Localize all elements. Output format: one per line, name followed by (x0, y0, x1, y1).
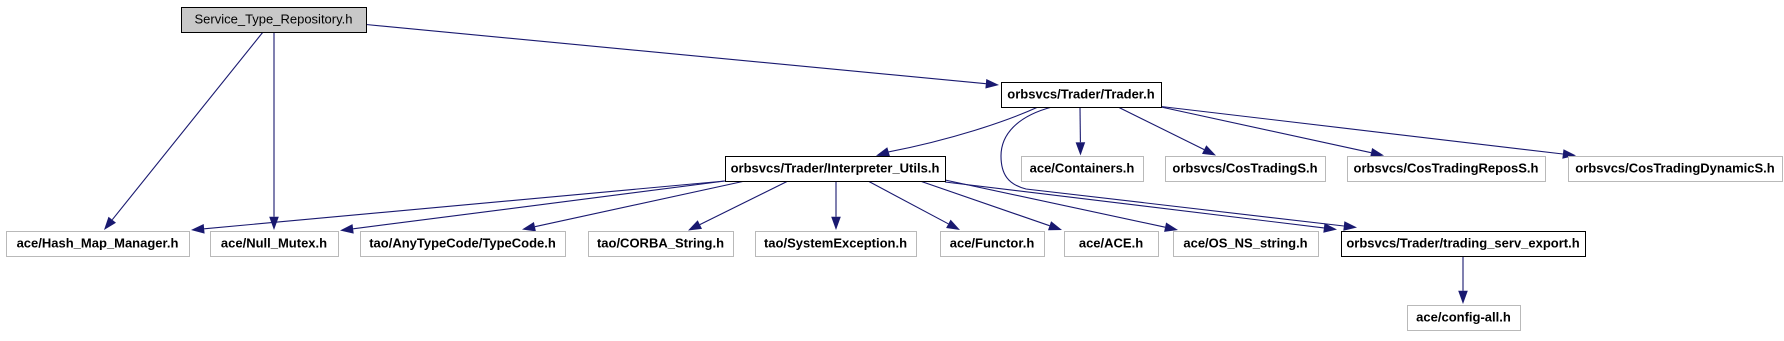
svg-text:orbsvcs/CosTradingReposS.h: orbsvcs/CosTradingReposS.h (1354, 161, 1539, 176)
svg-text:ace/OS_NS_string.h: ace/OS_NS_string.h (1183, 236, 1307, 251)
edge Interpreter_Utils.h -> tao/AnyTypeCode/TypeCode.h (522, 181, 745, 231)
svg-text:ace/config-all.h: ace/config-all.h (1416, 310, 1511, 325)
svg-text:ace/Hash_Map_Manager.h: ace/Hash_Map_Manager.h (17, 236, 179, 251)
node orbsvcs/CosTradingS.h (1166, 157, 1326, 182)
node ace/config-all.h (1408, 306, 1521, 331)
edge Interpreter_Utils.h -> orbsvcs/Trader/trading_serv_export.h (945, 182, 1337, 233)
svg-text:Service_Type_Repository.h: Service_Type_Repository.h (194, 12, 352, 27)
edge Interpreter_Utils.h -> tao/SystemException.h (831, 181, 841, 230)
node Service_Type_Repository.h (root) (182, 8, 367, 33)
node ace/Null_Mutex.h (211, 232, 339, 257)
svg-text:ace/Functor.h: ace/Functor.h (950, 236, 1035, 251)
svg-text:orbsvcs/Trader/Trader.h: orbsvcs/Trader/Trader.h (1007, 87, 1154, 102)
svg-text:ace/ACE.h: ace/ACE.h (1079, 236, 1143, 251)
edge trading_serv_export.h -> ace/config-all.h (1458, 256, 1468, 304)
node orbsvcs/CosTradingDynamicS.h (1569, 157, 1783, 182)
svg-text:tao/AnyTypeCode/TypeCode.h: tao/AnyTypeCode/TypeCode.h (369, 236, 556, 251)
svg-text:orbsvcs/CosTradingS.h: orbsvcs/CosTradingS.h (1172, 161, 1317, 176)
edge Service_Type_Repository.h -> ace/Null_Mutex.h (269, 32, 279, 230)
svg-text:orbsvcs/Trader/Interpreter_Uti: orbsvcs/Trader/Interpreter_Utils.h (731, 161, 940, 176)
node ace/Functor.h (941, 232, 1045, 257)
svg-text:ace/Containers.h: ace/Containers.h (1030, 161, 1135, 176)
node ace/Containers.h (1022, 157, 1144, 182)
edge Interpreter_Utils.h -> ace/OS_NS_string.h (945, 180, 1178, 232)
svg-text:ace/Null_Mutex.h: ace/Null_Mutex.h (221, 236, 327, 251)
edge Interpreter_Utils.h -> ace/Null_Mutex.h (340, 181, 725, 234)
node orbsvcs/Trader/trading_serv_export.h (1342, 232, 1586, 257)
edge Trader.h -> orbsvcs/CosTradingDynamicS.h (1161, 107, 1576, 159)
edge Trader.h -> ace/Containers.h (1076, 107, 1086, 156)
edge Trader.h -> trading_serv_export.h (curve around ace/Containers.h) (1001, 107, 1357, 231)
svg-text:orbsvcs/Trader/trading_serv_ex: orbsvcs/Trader/trading_serv_export.h (1346, 236, 1579, 251)
edge Interpreter_Utils.h -> ace/ACE.h (920, 181, 1062, 230)
node ace/Hash_Map_Manager.h (7, 232, 190, 257)
svg-text:tao/SystemException.h: tao/SystemException.h (764, 236, 907, 251)
svg-text:tao/CORBA_String.h: tao/CORBA_String.h (597, 236, 724, 251)
edge Trader.h -> orbsvcs/CosTradingS.h (1118, 107, 1216, 156)
edge Trader.h -> Interpreter_Utils.h (876, 107, 1038, 157)
node ace/OS_NS_string.h (1174, 232, 1319, 257)
edge Service_Type_Repository.h -> ace/Hash_Map_Manager.h (104, 32, 263, 230)
node orbsvcs/Trader/Trader.h (1002, 83, 1162, 108)
edge Trader.h -> orbsvcs/CosTradingReposS.h (1161, 107, 1384, 157)
edge Interpreter_Utils.h -> tao/CORBA_String.h (688, 181, 788, 231)
node tao/SystemException.h (756, 232, 917, 257)
node orbsvcs/Trader/Interpreter_Utils.h (726, 157, 946, 182)
node tao/CORBA_String.h (589, 232, 734, 257)
edge Interpreter_Utils.h -> ace/Functor.h (868, 181, 960, 230)
node ace/ACE.h (1065, 232, 1159, 257)
node orbsvcs/CosTradingReposS.h (1348, 157, 1546, 182)
edge Interpreter_Utils.h -> ace/Hash_Map_Manager.h (191, 181, 725, 234)
node tao/AnyTypeCode/TypeCode.h (361, 232, 566, 257)
svg-text:orbsvcs/CosTradingDynamicS.h: orbsvcs/CosTradingDynamicS.h (1575, 161, 1774, 176)
edge Service_Type_Repository.h -> orbsvcs/Trader/Trader.h (366, 25, 999, 89)
